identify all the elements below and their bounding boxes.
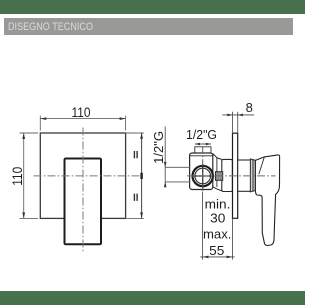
left dim extension line bottom <box>20 217 39 219</box>
svg-text:8: 8 <box>246 100 253 115</box>
wall plate square 110x110 <box>40 133 125 218</box>
front handle rectangle <box>65 159 102 245</box>
svg-text:110: 110 <box>10 167 25 186</box>
front horizontal centerline <box>34 175 142 177</box>
svg-text:30: 30 <box>210 210 225 225</box>
valve body <box>190 153 213 190</box>
neck chamfer top <box>213 154 222 160</box>
8 dim arrow right <box>238 114 243 117</box>
top dim extension line left <box>39 116 41 131</box>
front vertical centerline <box>82 128 84 252</box>
side port top edge <box>165 166 190 168</box>
gray title bar <box>4 18 293 35</box>
8 dim line <box>222 114 254 116</box>
handle cone rings <box>250 159 255 192</box>
handle boss <box>238 160 251 191</box>
equality dim extension top <box>126 132 144 134</box>
side horizontal centerline <box>187 175 276 177</box>
side port bottom edge <box>165 181 190 183</box>
top dimension line <box>40 118 125 120</box>
valve crosshair horizontal <box>192 175 215 177</box>
valve inner circle <box>195 168 211 184</box>
top dim arrow right <box>120 117 126 120</box>
left dimension line <box>23 133 25 218</box>
neck vertical edge <box>216 158 218 187</box>
svg-text:max.: max. <box>203 227 231 242</box>
bottom dim extension left (from body center) <box>202 192 204 260</box>
bottom dimension line <box>200 256 234 258</box>
left dim extension line top <box>20 132 39 134</box>
lever bevel line <box>259 157 265 174</box>
left dim arrow bottom <box>22 212 25 218</box>
svg-text:1/2"G: 1/2"G <box>186 127 217 142</box>
gray shaft <box>216 172 223 181</box>
wall plate side <box>233 133 238 218</box>
equal sign lower <box>134 194 137 201</box>
body cap line <box>190 155 213 157</box>
valve crosshair vertical <box>202 164 204 189</box>
plate extension lines up to 8-dim <box>232 112 234 133</box>
top green bar <box>0 0 305 14</box>
side 1/2G dim line <box>164 127 166 187</box>
equal sign upper <box>134 151 137 158</box>
svg-text:55: 55 <box>209 243 224 258</box>
bottom dim arrow left <box>203 256 209 259</box>
neck chamfer bottom <box>213 187 222 191</box>
nipple dim line <box>195 143 211 145</box>
equality dimension line <box>141 133 143 219</box>
valve outer circle <box>193 166 213 186</box>
equality dim arrow top <box>140 133 143 139</box>
svg-text:1/2"G: 1/2"G <box>151 131 166 164</box>
svg-text:min.: min. <box>205 196 231 211</box>
top nipple <box>195 147 211 153</box>
side 1/2G arrow lower <box>164 182 167 187</box>
8 dim arrow left <box>227 114 232 117</box>
top dim extension line right <box>125 116 127 131</box>
centerline tick at equality line <box>140 173 142 179</box>
top dim arrow left <box>40 117 46 120</box>
svg-text:110: 110 <box>72 105 91 120</box>
equality dim extension bottom <box>126 217 144 219</box>
side vertical centerline through body <box>202 147 204 192</box>
nipple dim arrow left <box>195 143 200 146</box>
mounting block <box>222 159 233 191</box>
bottom dim arrow right <box>227 256 233 259</box>
nipple dim arrow right <box>206 143 211 146</box>
equality dim arrow bottom <box>140 212 143 218</box>
bottom green bar <box>0 291 305 305</box>
handle lever <box>255 155 279 246</box>
side 1/2G arrow upper <box>164 162 167 167</box>
bottom dim extension right (wall face) <box>232 218 234 259</box>
left dim arrow top <box>22 133 25 139</box>
